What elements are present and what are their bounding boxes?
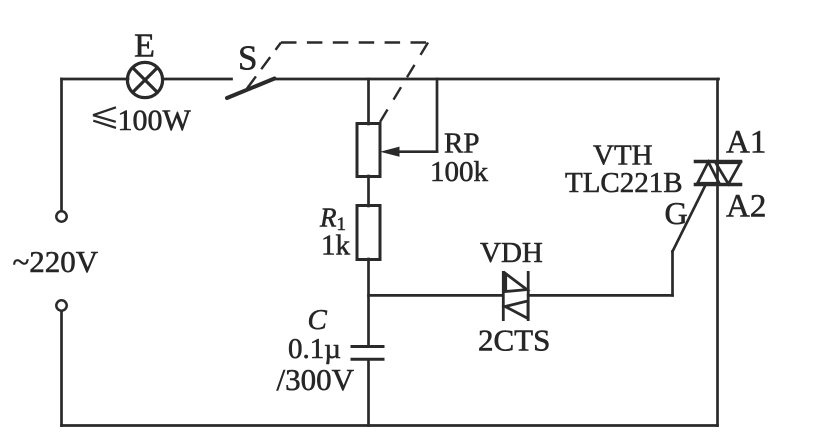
- svg-text:/300V: /300V: [277, 362, 355, 397]
- label TLC221B: [565, 167, 683, 199]
- label ~220V: [13, 244, 99, 279]
- wire top rail left segment: [62, 78, 129, 81]
- svg-text:A2: A2: [726, 189, 766, 225]
- lamp E: [127, 62, 162, 97]
- label G: [665, 195, 688, 231]
- wire right vertical A2 to bottom: [716, 185, 719, 426]
- label R1: [319, 203, 346, 236]
- label 1k: [321, 230, 351, 262]
- dashed mechanical link diagonal from switch: [247, 43, 281, 89]
- svg-text:~220V: ~220V: [13, 244, 99, 279]
- label RP: [444, 128, 479, 160]
- wire center vertical rail to RP: [367, 79, 370, 124]
- label VDH: [480, 237, 543, 269]
- wire gate diagonal to triac: [673, 186, 706, 252]
- label /300V: [277, 362, 355, 397]
- svg-text:S: S: [238, 39, 257, 78]
- svg-text:RP: RP: [444, 128, 479, 160]
- wire top rail right segment: [274, 78, 719, 81]
- wire capacitor to bottom rail: [367, 361, 370, 426]
- label A1: [726, 125, 766, 161]
- svg-text:VDH: VDH: [480, 237, 543, 269]
- svg-text:100k: 100k: [430, 156, 489, 188]
- wire triac middle vertical: [716, 162, 719, 185]
- potentiometer RP body: [357, 124, 380, 177]
- label 100k: [430, 156, 489, 188]
- wire RP wiper horizontal: [392, 150, 437, 153]
- triac VTH: [694, 162, 743, 185]
- wire RP to R1: [367, 176, 370, 206]
- label A2: [726, 189, 766, 225]
- svg-text:0.1µ: 0.1µ: [288, 333, 341, 365]
- label C: [308, 304, 328, 336]
- wire RP wiper feed vertical: [436, 79, 439, 152]
- diac VDH: [503, 271, 528, 321]
- wire top rail middle segment: [163, 78, 232, 81]
- svg-text:E: E: [134, 28, 155, 65]
- svg-text:A1: A1: [726, 125, 766, 161]
- label 0.1u: [288, 333, 341, 365]
- svg-text:100W: 100W: [118, 104, 192, 137]
- switch S blade: [227, 79, 275, 99]
- svg-text:C: C: [308, 304, 328, 336]
- svg-text:G: G: [665, 195, 688, 231]
- wire gate vertical: [671, 252, 674, 296]
- label ≤100W: [93, 104, 192, 137]
- dashed mechanical link top horizontal: [281, 41, 428, 43]
- terminal upper of ~220V source: [56, 211, 66, 221]
- svg-text:1k: 1k: [321, 230, 351, 262]
- svg-text:2CTS: 2CTS: [478, 323, 550, 358]
- label VTH: [593, 140, 653, 172]
- wire R1 to capacitor: [367, 259, 370, 345]
- dashed mechanical link diagonal to RP: [380, 43, 428, 123]
- wire diac to gate corner: [528, 294, 672, 297]
- wire node junction to diac: [369, 294, 504, 297]
- label E: [134, 28, 155, 65]
- wire left vertical lower: [60, 311, 63, 426]
- terminal lower of ~220V source: [56, 300, 66, 310]
- wire left vertical upper: [60, 79, 63, 211]
- capacitor C plates: [351, 347, 385, 360]
- resistor R1 body: [357, 206, 380, 260]
- potentiometer RP wiper arrowhead: [380, 147, 400, 157]
- wire right vertical A1: [716, 79, 719, 162]
- label 2CTS: [478, 323, 550, 358]
- label S: [238, 39, 257, 78]
- wire bottom rail: [62, 424, 718, 427]
